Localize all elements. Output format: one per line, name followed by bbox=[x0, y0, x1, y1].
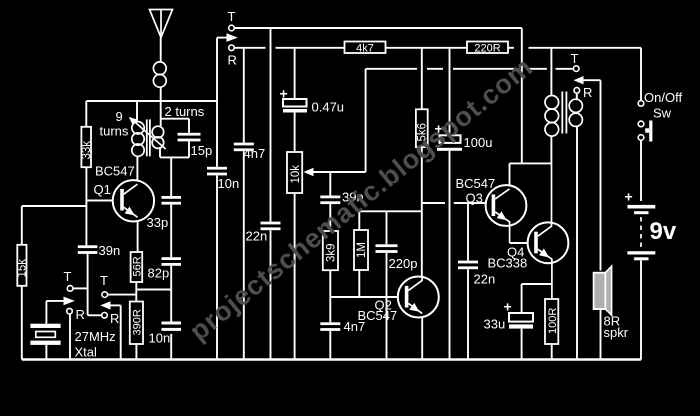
wire 15p bottom bbox=[188, 141, 190, 157]
svg-text:220p: 220p bbox=[389, 256, 418, 271]
svg-text:Q1: Q1 bbox=[94, 182, 111, 197]
wire Q2 base bbox=[330, 296, 405, 298]
svg-text:10k: 10k bbox=[290, 165, 302, 184]
switch sw1 T contact bbox=[67, 286, 73, 292]
wire sw2-T to emitter divider bbox=[108, 294, 137, 296]
wire 33u top drop bbox=[521, 284, 523, 313]
svg-text:T: T bbox=[100, 273, 108, 288]
wire Q3 collector elbow bbox=[509, 163, 511, 189]
wire 82p to 10n bbox=[170, 266, 172, 322]
svg-text:BC547: BC547 bbox=[95, 164, 135, 179]
resistor 390R bbox=[130, 302, 144, 345]
svg-text:+: + bbox=[625, 189, 633, 205]
wire On/Off switch to battery bbox=[640, 140, 642, 201]
wire sw4 common to speaker bbox=[583, 79, 601, 81]
wire 10k pot to ground bbox=[294, 193, 296, 360]
wire 4n7 column bbox=[243, 48, 245, 143]
capacitor 10n (left) bbox=[162, 322, 182, 331]
wire transformer-2 primary bottom to node bbox=[550, 136, 552, 163]
wire Q2 base to 4n7 bbox=[329, 297, 331, 322]
resistor 220R bbox=[467, 42, 508, 55]
wire 100u to ground (crosses Q3 base) bbox=[449, 151, 451, 360]
battery 9v bbox=[627, 205, 655, 260]
svg-text:100u: 100u bbox=[464, 135, 493, 150]
crystal 27MHz bbox=[30, 324, 60, 345]
resistor 56R bbox=[131, 252, 144, 282]
wire tank top bbox=[161, 118, 189, 120]
svg-text:82p: 82p bbox=[148, 266, 170, 281]
wire 15k bottom bbox=[21, 286, 23, 360]
svg-text:33k: 33k bbox=[81, 141, 93, 160]
wire 1M/220p top to Q2 collector bbox=[359, 210, 422, 212]
switch sw4 R contact bbox=[574, 88, 580, 94]
switch sw3 R contact bbox=[229, 45, 235, 51]
wire 33p to 82p bbox=[170, 205, 172, 258]
capacitor 22n (right) bbox=[458, 261, 478, 270]
wire 9-turns top bbox=[136, 101, 138, 122]
wire speaker top bbox=[600, 80, 602, 270]
transformer T1 tuning arrow bbox=[129, 117, 166, 149]
wire 10n-left to ground bbox=[170, 334, 172, 360]
svg-text:10n: 10n bbox=[149, 331, 171, 346]
switch sw3 T contact bbox=[229, 25, 235, 31]
switch On/Off contact 1 bbox=[638, 101, 644, 107]
wire 390R to ground bbox=[135, 344, 137, 360]
wire audio corner to wiper bbox=[365, 69, 367, 172]
svg-text:4k7: 4k7 bbox=[356, 42, 374, 54]
wire 82p column to emitter divider bbox=[136, 289, 171, 291]
svg-text:2 turns: 2 turns bbox=[165, 104, 205, 119]
svg-text:56R: 56R bbox=[131, 256, 143, 276]
capacitor 220p bbox=[376, 244, 398, 253]
wire sw3 common down to 10n node bbox=[216, 38, 218, 167]
svg-text:T: T bbox=[64, 269, 72, 284]
capacitor 22n (left) bbox=[261, 222, 281, 231]
wire R-bus to transformer-2 primary bbox=[550, 48, 552, 96]
wire crystal bottom bbox=[45, 345, 47, 360]
resistor 4k7 bbox=[345, 42, 386, 55]
svg-text:15k: 15k bbox=[17, 259, 29, 278]
svg-text:On/Off: On/Off bbox=[644, 90, 682, 105]
svg-text:Sw: Sw bbox=[653, 106, 672, 121]
wire tank to 33p bbox=[170, 157, 172, 196]
wire 1M top bbox=[358, 211, 360, 230]
inductor antenna choke bbox=[153, 62, 166, 87]
wire 4n7-mid to ground bbox=[329, 331, 331, 360]
svg-text:220R: 220R bbox=[474, 42, 500, 54]
wire wiper node down to 39n bbox=[329, 172, 331, 196]
wire sw1-R to ground bbox=[69, 314, 71, 360]
wire R-bus to 5k6 bbox=[421, 48, 423, 110]
switch On/Off button bbox=[645, 121, 652, 142]
resistor 3k9 bbox=[323, 231, 338, 270]
wire audio line y69 (gaps at 5k6,100u,T-net,transformer crossings) bbox=[366, 68, 574, 70]
wire Q1 base bbox=[87, 200, 121, 202]
switch On/Off contact 3 bbox=[638, 135, 644, 141]
wire T-net vertical to transformer node bbox=[521, 28, 523, 163]
wire 220p to ground bbox=[386, 253, 388, 360]
transistor Q2 BC547 bbox=[398, 277, 439, 318]
capacitor 33p bbox=[162, 196, 182, 205]
wire R-bus (4k7/220R supply rail, gaps at 22n and T-net crossings) bbox=[234, 47, 641, 49]
wire 33k/antenna/9-turns node bbox=[86, 100, 217, 102]
resistor 5k6 bbox=[416, 109, 429, 147]
svg-text:T: T bbox=[228, 9, 236, 24]
transformer T1 secondary 2 turns bbox=[152, 126, 164, 148]
capacitor 39n (middle) bbox=[320, 196, 340, 205]
wire sw3 common elbow bbox=[217, 37, 227, 39]
wire 33k bottom to 39n bbox=[85, 167, 87, 245]
svg-text:15p: 15p bbox=[191, 143, 213, 158]
switch sw1 R contact bbox=[67, 308, 73, 314]
transistor Q1 BC547 bbox=[113, 180, 154, 221]
wire 22n-right to ground bbox=[467, 269, 469, 359]
wire antenna coil to tank bbox=[160, 87, 162, 126]
wire 33u to ground bbox=[521, 329, 523, 360]
svg-text:4n7: 4n7 bbox=[244, 146, 266, 161]
svg-text:+: + bbox=[280, 86, 288, 102]
wire 39n bottom to sw2-R bbox=[88, 314, 102, 316]
wire crystal to sw1 common bbox=[46, 300, 64, 302]
svg-text:39n: 39n bbox=[99, 243, 121, 258]
wire 33k top bbox=[85, 101, 87, 127]
wire 2-turns bottom bbox=[159, 147, 161, 157]
antenna bbox=[150, 10, 173, 38]
wire R-bus to 100u bbox=[449, 48, 451, 136]
wire 100R to ground bbox=[551, 344, 553, 360]
transformer T2 core bbox=[562, 92, 566, 134]
wire T-bus top horizontal bbox=[234, 27, 522, 29]
switch sw4 common arrow bbox=[574, 76, 584, 84]
wire 15p top bbox=[188, 119, 190, 133]
wire Q1 emitter to 56R bbox=[137, 218, 139, 252]
svg-text:100R: 100R bbox=[547, 308, 559, 334]
wire 10k wiper bbox=[313, 171, 366, 173]
svg-text:R: R bbox=[228, 53, 237, 68]
wire Q3 base to 22n bbox=[467, 203, 469, 261]
capacitor 15p bbox=[178, 133, 201, 142]
capacitor 82p bbox=[162, 257, 182, 266]
transformer T1 primary 9 turns bbox=[132, 122, 144, 157]
wire 10n-mid to ground bbox=[216, 175, 218, 359]
resistor 15k bbox=[17, 245, 29, 286]
wire sw2 common to ground drop bbox=[110, 304, 121, 306]
potentiometer 10k bbox=[287, 152, 314, 193]
svg-text:27MHz: 27MHz bbox=[75, 329, 116, 344]
svg-text:BC338: BC338 bbox=[488, 256, 528, 271]
wire 9-turns bottom to Q1 collector bbox=[136, 156, 138, 184]
wire R-bus corner to On/Off switch bbox=[640, 48, 642, 101]
wire tank bottom bbox=[160, 156, 189, 158]
svg-text:22n: 22n bbox=[474, 272, 496, 287]
wire 22n to ground bbox=[270, 230, 272, 359]
svg-text:9v: 9v bbox=[650, 218, 677, 245]
svg-text:R: R bbox=[76, 307, 85, 322]
wire 5k6 to Q2 collector node bbox=[421, 147, 423, 277]
switch On/Off contact 2 bbox=[638, 121, 644, 127]
wire sw4-R to secondary bbox=[576, 93, 578, 99]
wire crystal top bbox=[45, 301, 47, 324]
capacitor 33u electrolytic bbox=[509, 313, 533, 329]
svg-text:BC547: BC547 bbox=[456, 176, 496, 191]
capacitor 0.47u electrolytic bbox=[283, 99, 307, 113]
svg-text:4n7: 4n7 bbox=[344, 319, 366, 334]
resistor 1M bbox=[354, 230, 368, 270]
transistor Q3 BC547 bbox=[486, 185, 527, 243]
capacitor 4n7 (left) bbox=[234, 143, 254, 152]
svg-text:3k9: 3k9 bbox=[326, 243, 338, 262]
wire sw2 common ground drop bbox=[120, 305, 122, 359]
switch sw2 common arrow bbox=[100, 301, 110, 309]
battery dashed link bbox=[640, 217, 642, 248]
switch sw2 T contact bbox=[102, 292, 108, 298]
switch sw3 common arrow bbox=[227, 33, 238, 42]
svg-text:turns: turns bbox=[100, 124, 129, 139]
wire 56R to 390R bbox=[135, 282, 137, 302]
wire R-bus to 0.47u bbox=[294, 48, 296, 99]
transformer T2 primary bbox=[545, 96, 559, 137]
wire 3k9 to Q2 base bbox=[329, 270, 331, 297]
svg-text:R: R bbox=[583, 85, 592, 100]
svg-text:Q3: Q3 bbox=[466, 191, 483, 206]
svg-text:9: 9 bbox=[116, 109, 123, 124]
wire 33u top to Q4 emitter bbox=[522, 283, 552, 285]
svg-text:1M: 1M bbox=[356, 242, 368, 258]
svg-text:22n: 22n bbox=[246, 229, 268, 244]
switch sw1 common arrow bbox=[64, 297, 75, 306]
resistor 33k bbox=[81, 127, 93, 167]
svg-text:0.47u: 0.47u bbox=[312, 100, 345, 115]
wire Q2 emitter to ground bbox=[421, 314, 423, 360]
wire secondary bottom to ground bbox=[576, 127, 578, 360]
wire speaker bottom bbox=[600, 309, 602, 359]
wire antenna to coil bbox=[160, 38, 162, 63]
wire 220p top bbox=[386, 211, 388, 244]
svg-text:R: R bbox=[110, 311, 119, 326]
capacitor 39n (left) bbox=[78, 245, 98, 254]
wire 4n7 to ground bbox=[243, 151, 245, 359]
svg-text:10n: 10n bbox=[218, 176, 240, 191]
wire sw1-T to 39n line bbox=[73, 287, 88, 289]
switch sw2 R contact bbox=[102, 313, 108, 319]
transformer T1 core bbox=[147, 119, 150, 156]
wire battery to ground bbox=[640, 260, 642, 359]
capacitor 10n (middle) bbox=[207, 167, 227, 176]
svg-text:390R: 390R bbox=[132, 309, 144, 335]
transformer T2 secondary bbox=[569, 99, 582, 126]
wire 39n to 3k9 bbox=[329, 204, 331, 231]
svg-text:+: + bbox=[504, 299, 512, 315]
svg-text:T: T bbox=[571, 51, 579, 66]
wire 39n bottom to sw-node bbox=[87, 251, 89, 315]
wire T-net to 22n bbox=[270, 28, 272, 222]
wire 1M bottom bbox=[358, 270, 360, 297]
capacitor 4n7 (middle) bbox=[320, 322, 340, 331]
wire 15k to base node bbox=[22, 205, 87, 207]
wire transformer-2 primary bottom node bbox=[510, 162, 552, 164]
svg-text:33p: 33p bbox=[147, 215, 169, 230]
switch sw4 T contact bbox=[573, 66, 579, 72]
wire 15k top bbox=[21, 206, 23, 245]
transistor Q4 BC338 bbox=[528, 163, 569, 299]
svg-text:Xtal: Xtal bbox=[75, 345, 98, 360]
wire Q3 emitter to Q4 base bbox=[510, 242, 535, 244]
capacitor 100u electrolytic bbox=[437, 135, 462, 151]
speaker 8R bbox=[594, 266, 612, 315]
ground bus bbox=[22, 358, 641, 360]
wire Q3 base (gap at 100u line crossing) bbox=[422, 202, 492, 204]
svg-text:spkr: spkr bbox=[604, 325, 629, 340]
resistor 100R bbox=[545, 299, 559, 344]
svg-text:33u: 33u bbox=[484, 317, 506, 332]
wire 0.47u to 10k pot bbox=[294, 113, 296, 153]
